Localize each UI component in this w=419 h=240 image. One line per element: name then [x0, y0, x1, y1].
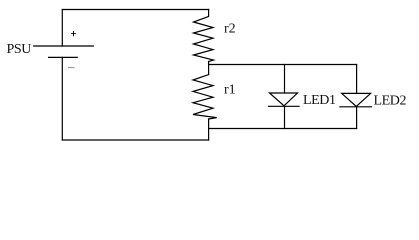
- battery PSU positive plate: [34, 45, 94, 47]
- resistor r1: [193, 75, 217, 119]
- svg-text:r1: r1: [224, 83, 236, 98]
- resistor r2: [194, 10, 214, 62]
- svg-text:PSU: PSU: [7, 42, 32, 57]
- svg-text:r2: r2: [224, 22, 236, 37]
- diode LED2: [342, 93, 371, 106]
- svg-text:LED2: LED2: [374, 94, 407, 109]
- diode LED1: [270, 93, 298, 106]
- wire bottom rail (battery - to r1 bottom): [62, 139, 208, 141]
- svg-text:LED1: LED1: [303, 93, 336, 108]
- wire r1 bottom lead: [208, 119, 210, 140]
- battery polarity mark +: [71, 31, 76, 36]
- wire LED top rail (node A to LED2): [209, 64, 357, 66]
- wire LED2 anode branch: [356, 65, 358, 94]
- wire top rail (battery + to r2): [62, 9, 208, 11]
- battery PSU negative plate: [49, 56, 78, 58]
- wire LED2 cathode branch: [356, 107, 358, 129]
- wire LED1 cathode branch: [284, 106, 286, 128]
- wire left upper (top rail to battery +): [61, 10, 63, 47]
- wire node A (r2 bottom to r1 top, junction with LED rail): [208, 62, 210, 75]
- battery polarity mark -: [68, 67, 75, 69]
- wire left lower (battery - to bottom rail): [61, 57, 63, 140]
- wire LED bottom rail (r1 bottom lead to LED2 cathode): [209, 128, 357, 130]
- wire LED1 anode branch: [284, 65, 286, 94]
